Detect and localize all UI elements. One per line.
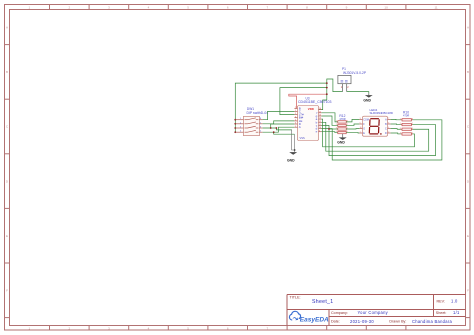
svg-text:1: 1 xyxy=(295,110,296,112)
resistor network R10 xyxy=(400,110,413,135)
svg-text:D: D xyxy=(385,132,387,135)
svg-text:GND: GND xyxy=(363,98,371,102)
svg-text:3: 3 xyxy=(336,128,337,130)
svg-text:4: 4 xyxy=(295,120,296,122)
wire red net xyxy=(289,94,327,108)
wire U3 outputs to R12 xyxy=(322,113,338,133)
svg-text:VSS: VSS xyxy=(300,136,305,140)
DIP switch DW1 xyxy=(235,107,268,136)
svg-text:1.0: 1.0 xyxy=(451,299,458,304)
junction dot GND node under U3 xyxy=(294,149,296,151)
svg-text:COM: COM xyxy=(363,118,369,121)
svg-text:470R: 470R xyxy=(403,114,409,118)
svg-text:DIP swithD-04: DIP swithD-04 xyxy=(247,111,269,115)
svg-text:Drawn By:: Drawn By: xyxy=(389,320,406,324)
svg-text:B: B xyxy=(6,70,8,74)
svg-text:CD4511BE_C507103: CD4511BE_C507103 xyxy=(298,100,331,104)
wire bundle DIP to U3 xyxy=(263,111,295,134)
svg-text:470R: 470R xyxy=(339,117,345,121)
svg-text:3: 3 xyxy=(360,118,361,120)
junction dot node seg-d stub xyxy=(328,128,330,130)
digit 8 segments xyxy=(369,119,379,134)
svg-text:VDD: VDD xyxy=(308,107,314,111)
ground GND under R12 xyxy=(339,137,347,140)
svg-text:2: 2 xyxy=(400,123,401,125)
svg-text:2021-09-30: 2021-09-30 xyxy=(350,319,374,324)
ground GND under P1 xyxy=(365,93,373,97)
junction dots in DIP-U3 bundle xyxy=(270,127,272,129)
svg-text:Your Company: Your Company xyxy=(358,310,389,315)
svg-text:8: 8 xyxy=(412,118,413,120)
svg-text:15: 15 xyxy=(319,111,321,113)
svg-text:7: 7 xyxy=(295,107,296,109)
svg-text:1: 1 xyxy=(336,120,337,122)
svg-text:6: 6 xyxy=(295,116,296,118)
7-seg display LED4 xyxy=(359,108,393,136)
svg-text:EasyEDA: EasyEDA xyxy=(300,316,329,323)
svg-text:11: 11 xyxy=(434,6,437,10)
svg-text:10: 10 xyxy=(319,127,321,129)
svg-text:2: 2 xyxy=(295,113,296,115)
svg-text:13: 13 xyxy=(319,118,321,120)
svg-text:9: 9 xyxy=(319,130,320,132)
svg-text:E: E xyxy=(6,234,8,238)
svg-text:2: 2 xyxy=(336,124,337,126)
svg-text:SLR0394DBC18D: SLR0394DBC18D xyxy=(370,111,393,115)
svg-text:7: 7 xyxy=(412,123,413,125)
svg-text:2: 2 xyxy=(388,132,389,134)
svg-text:1: 1 xyxy=(400,118,401,120)
connector P1 xyxy=(338,67,367,92)
svg-text:A: A xyxy=(299,125,301,129)
svg-text:1: 1 xyxy=(360,132,361,134)
svg-text:4: 4 xyxy=(388,127,389,129)
svg-text:1/1: 1/1 xyxy=(453,310,460,315)
svg-text:B: B xyxy=(467,70,469,74)
svg-text:10: 10 xyxy=(384,6,388,10)
svg-text:3: 3 xyxy=(400,128,401,130)
svg-text:5: 5 xyxy=(412,133,413,135)
svg-text:4: 4 xyxy=(400,133,401,135)
IC U3 CD4511 xyxy=(294,96,331,140)
svg-text:7: 7 xyxy=(388,118,389,120)
svg-text:TITLE:: TITLE: xyxy=(290,296,301,300)
wire R12 to display xyxy=(346,119,359,133)
wire GND drops under U3 xyxy=(292,130,295,152)
wire U3 outputs to loops left legs xyxy=(322,119,442,160)
svg-text:Sheet:: Sheet: xyxy=(436,311,447,315)
svg-text:GND: GND xyxy=(337,141,345,145)
svg-text:12: 12 xyxy=(319,121,321,123)
svg-text:6: 6 xyxy=(412,128,413,130)
EasyEDA logo xyxy=(289,311,329,323)
svg-text:F: F xyxy=(6,289,8,293)
wire VCC net green xyxy=(235,79,342,132)
svg-text:Chandima Bandara: Chandima Bandara xyxy=(412,319,452,324)
svg-text:F: F xyxy=(467,289,469,293)
svg-text:Date:: Date: xyxy=(331,320,340,324)
svg-text:C: C xyxy=(385,128,387,131)
wire R12 bottom to ground xyxy=(342,134,344,138)
svg-text:16: 16 xyxy=(319,108,321,110)
wire P1 pin2 to ground xyxy=(347,92,369,94)
wire display to R10 xyxy=(391,119,401,134)
svg-text:3: 3 xyxy=(295,123,296,125)
svg-text:A: A xyxy=(467,26,469,30)
svg-text:G: G xyxy=(363,128,365,131)
svg-text:GND: GND xyxy=(287,159,295,163)
svg-text:6: 6 xyxy=(388,123,389,125)
svg-text:REV:: REV: xyxy=(437,300,445,304)
svg-text:WJ301V-5.0-2P: WJ301V-5.0-2P xyxy=(343,71,367,75)
svg-text:Company:: Company: xyxy=(331,311,348,315)
svg-text:A: A xyxy=(6,26,8,30)
svg-text:5: 5 xyxy=(360,123,361,125)
title block xyxy=(287,295,466,326)
svg-text:5: 5 xyxy=(295,126,296,128)
ground GND under U3 xyxy=(289,152,297,155)
svg-text:11: 11 xyxy=(319,124,321,126)
svg-text:E: E xyxy=(467,234,469,238)
svg-text:14: 14 xyxy=(319,115,321,117)
svg-text:10: 10 xyxy=(360,127,362,129)
resistor network R12 xyxy=(336,114,348,134)
svg-text:Sheet_1: Sheet_1 xyxy=(312,299,333,305)
svg-text:4: 4 xyxy=(336,131,337,133)
node junction dots VCC column xyxy=(234,82,327,133)
